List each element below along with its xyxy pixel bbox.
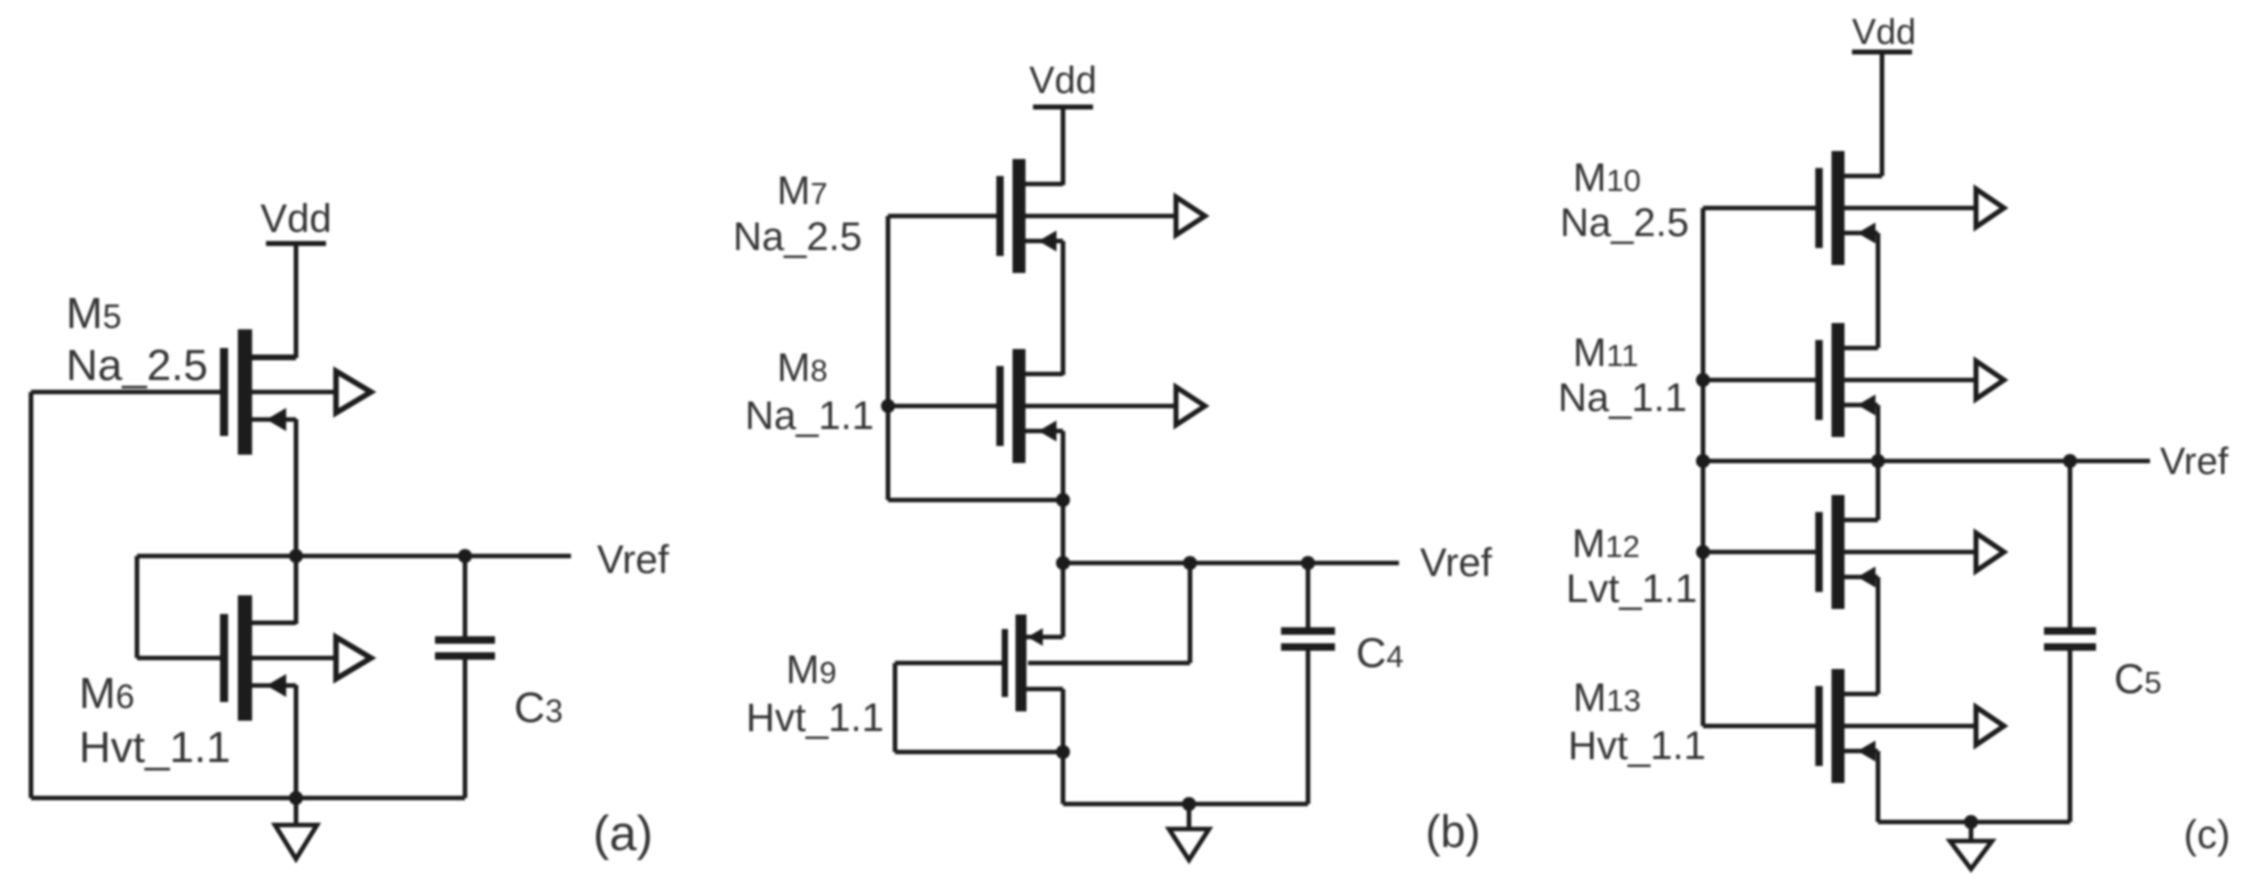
wire M10 source to M11 drain — [1876, 233, 1881, 348]
svg-text:M8: M8 — [777, 346, 828, 390]
wire M9 to ground rail — [1061, 752, 1066, 804]
svg-text:Na_2.5: Na_2.5 — [733, 215, 862, 259]
svg-text:M13: M13 — [1573, 676, 1641, 720]
capacitor C4 — [1281, 563, 1335, 804]
node M8 gate junction — [881, 399, 895, 413]
transistor M5 — [31, 329, 371, 454]
node junction cap C4 (b) — [1301, 556, 1315, 570]
node junction ground (a) — [289, 791, 303, 805]
svg-text:Hvt_1.1: Hvt_1.1 — [1568, 724, 1706, 768]
wire M6 source down to ground rail — [294, 685, 299, 798]
svg-text:Lvt_1.1: Lvt_1.1 — [1566, 567, 1697, 611]
node junction M9 bulk Vref (b) — [1183, 556, 1197, 570]
transistor M7 — [888, 159, 1205, 273]
svg-text:(c): (c) — [2184, 813, 2231, 857]
ground ground (b) — [1169, 804, 1209, 860]
node M12 gate junction — [1696, 545, 1710, 559]
svg-text:Vdd: Vdd — [1029, 60, 1097, 102]
wire M6 gate loop vertical (a) — [135, 556, 140, 658]
svg-text:Na_1.1: Na_1.1 — [1558, 376, 1687, 420]
wire Vdd to M10 drain (c) — [1880, 52, 1885, 176]
svg-text:M7: M7 — [777, 169, 828, 213]
node junction ground (b) — [1182, 797, 1196, 811]
wire M8 source down — [1061, 431, 1066, 563]
wire M9 gate loop bottom (b) — [895, 750, 1063, 755]
svg-text:Vref: Vref — [2160, 441, 2229, 483]
wire Vdd to M5 drain (a) — [294, 244, 299, 359]
wire left rail (c) — [1701, 208, 1706, 726]
svg-text:Hvt_1.1: Hvt_1.1 — [79, 723, 231, 772]
svg-text:Na_2.5: Na_2.5 — [66, 341, 208, 390]
power Vdd (c) — [1852, 50, 1912, 55]
svg-text:Vdd: Vdd — [260, 197, 331, 241]
svg-text:Vref: Vref — [597, 538, 670, 582]
svg-text:M11: M11 — [1573, 331, 1639, 375]
transistor M11 — [1703, 323, 2004, 437]
svg-text:C4: C4 — [1356, 629, 1404, 676]
node Vref wire (a) — [137, 554, 571, 559]
power Vdd (b) — [1033, 105, 1093, 110]
svg-text:M5: M5 — [66, 289, 122, 338]
wire M13 source to ground rail — [1876, 751, 1881, 822]
wire M5 source down to Vref node — [294, 419, 299, 556]
svg-text:C3: C3 — [514, 684, 563, 732]
svg-text:C5: C5 — [2114, 655, 2162, 702]
wire M9 bulk vertical — [1188, 563, 1193, 663]
node M9 loop junction — [1056, 745, 1070, 759]
svg-text:M12: M12 — [1572, 522, 1640, 566]
svg-text:(b): (b) — [1426, 806, 1481, 857]
wire M11 source to M12 drain — [1876, 405, 1881, 520]
wire M7 source to M8 drain — [1061, 241, 1066, 375]
node cap C5 junction (c) — [2063, 454, 2077, 468]
node junction M5/M6/Vref (a) — [289, 549, 303, 563]
transistor M13 — [1703, 669, 2004, 783]
wire ground rail (c) — [1878, 820, 2070, 825]
power Vdd (a) — [266, 241, 326, 246]
wire M9 bulk to Vref — [1028, 661, 1190, 666]
ground ground (c) — [1950, 822, 1992, 869]
node Vref wire (c) — [1703, 459, 2150, 464]
wire Vref to M9 source — [1061, 563, 1066, 637]
node junction cap C3 (a) — [458, 549, 472, 563]
svg-text:M9: M9 — [786, 648, 837, 692]
ground ground (a) — [275, 798, 317, 859]
svg-text:(a): (a) — [593, 807, 653, 861]
svg-text:M10: M10 — [1573, 156, 1641, 200]
node Vref wire (b) — [1063, 561, 1399, 566]
wire M12 source to M13 drain — [1876, 577, 1881, 694]
transistor M9 — [895, 615, 1063, 712]
wire M5 drain corner (a) — [252, 356, 296, 361]
node loop junction (b) — [1056, 493, 1070, 507]
wire left rail (b) — [886, 216, 891, 500]
capacitor C3 — [435, 556, 495, 798]
svg-text:Vref: Vref — [1420, 541, 1493, 585]
svg-text:Na_2.5: Na_2.5 — [1560, 201, 1689, 245]
node junction M9 drain Vref (b) — [1056, 556, 1070, 570]
wire M5 gate to left rail — [29, 392, 34, 798]
node junction ground (c) — [1964, 815, 1978, 829]
wire M9 gate loop vertical (b) — [893, 663, 898, 752]
transistor M12 — [1703, 495, 2004, 609]
svg-text:M6: M6 — [79, 669, 135, 718]
wire ground rail (a) — [31, 796, 465, 801]
capacitor C5 — [2044, 461, 2096, 822]
svg-text:Na_1.1: Na_1.1 — [745, 394, 874, 438]
wire Vdd to M7 drain (b) — [1061, 107, 1066, 185]
wire ground rail (b) — [1063, 802, 1308, 807]
transistor M6 — [137, 595, 371, 720]
wire M10 drain corner (c) — [1878, 174, 1882, 179]
node chain Vref junction (c) — [1871, 454, 1885, 468]
transistor M10 — [1703, 151, 2004, 265]
transistor M8 — [888, 349, 1205, 463]
svg-text:Vdd: Vdd — [1852, 11, 1916, 52]
wire loop bottom (b) — [888, 498, 1063, 503]
wire M9 drain down — [1061, 689, 1066, 752]
node M11 gate junction — [1696, 373, 1710, 387]
svg-text:Hvt_1.1: Hvt_1.1 — [746, 696, 884, 740]
node rail Vref junction (c) — [1696, 454, 1710, 468]
wire Vref down to M6 drain — [294, 556, 299, 624]
